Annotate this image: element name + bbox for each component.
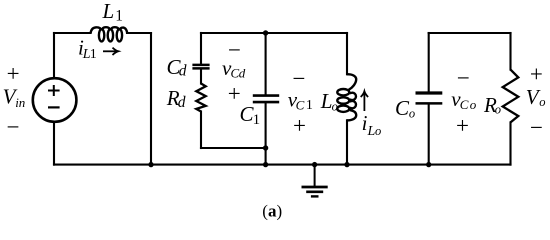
svg-text:C: C: [296, 97, 305, 112]
arrow right for iL1 current: [103, 48, 118, 55]
svg-text:C: C: [395, 96, 410, 120]
svg-text:1: 1: [253, 112, 261, 128]
wire Lo branch bottom: [346, 120, 348, 164]
svg-text:(a): (a): [262, 201, 282, 220]
svg-text:L: L: [320, 89, 333, 113]
junction node: C1 bottom on rail: [263, 162, 268, 167]
svg-text:+: +: [456, 113, 469, 138]
capacitor Cd plates: [192, 65, 209, 69]
svg-text:1: 1: [306, 98, 313, 113]
svg-text:−: −: [7, 115, 20, 140]
wire source loop left vertical bottom: [53, 122, 55, 165]
resistor Ro zigzag: [503, 70, 519, 123]
junction node: ground tap on rail: [312, 162, 317, 167]
junction node: L1 loop on bottom rail: [148, 162, 153, 167]
junction node: Lo bottom on rail: [344, 162, 349, 167]
wire output loop top rail: [429, 32, 511, 34]
arrow up for iLo current: [361, 91, 368, 111]
svg-text:+: +: [293, 113, 306, 138]
voltage source minus sign: [48, 106, 60, 108]
resistor Rd zigzag: [196, 84, 205, 112]
voltage source Vin circle: [33, 78, 77, 122]
wire Co branch top: [428, 33, 430, 92]
wire bottom ground rail: [54, 164, 511, 166]
svg-text:d: d: [178, 94, 186, 111]
svg-text:+: +: [530, 62, 543, 87]
svg-text:1: 1: [115, 7, 123, 24]
svg-text:o: o: [332, 99, 338, 113]
wire Lo branch top: [346, 33, 348, 74]
wire middle network top rail: [201, 32, 347, 34]
svg-text:1: 1: [90, 47, 97, 62]
ground symbol: [302, 165, 328, 197]
svg-text:o: o: [539, 95, 545, 109]
svg-text:o: o: [495, 103, 501, 117]
svg-text:d: d: [179, 63, 187, 80]
svg-text:L: L: [102, 0, 115, 23]
junction node: inner wire at C1 branch: [263, 145, 268, 150]
svg-text:d: d: [239, 66, 246, 81]
wire source loop left vertical top: [53, 33, 55, 78]
junction node: C1 top on middle rail: [263, 30, 268, 35]
wire C1 branch top: [265, 33, 267, 94]
wire Co branch bottom: [428, 105, 430, 165]
voltage source plus sign: [48, 85, 60, 96]
wire top rail from L1 to right corner: [127, 32, 151, 34]
wire Cd branch top: [200, 33, 202, 64]
junction node: Co bottom on rail: [426, 162, 431, 167]
inductor Lo coil: [337, 74, 356, 120]
wire C1 branch bottom: [265, 103, 267, 164]
wire top-left rail from source to L1: [54, 32, 91, 34]
svg-text:o: o: [470, 97, 477, 112]
svg-text:C: C: [460, 97, 469, 112]
svg-text:−: −: [530, 115, 543, 140]
wire below Rd: [200, 112, 202, 149]
wire inner bottom (Rd bottom to C1 branch): [201, 147, 266, 149]
svg-text:o: o: [409, 107, 415, 121]
svg-text:o: o: [375, 124, 381, 138]
svg-text:in: in: [15, 95, 25, 110]
inductor L1 coil: [91, 27, 128, 41]
svg-text:+: +: [7, 61, 20, 86]
wire Ro branch top: [509, 33, 511, 70]
capacitor Co plates: [416, 93, 443, 103]
wire Ro branch bottom: [509, 122, 511, 164]
wire between Cd and Rd: [200, 70, 202, 84]
wire source loop right vertical: [150, 33, 152, 165]
capacitor C1 plates: [253, 96, 279, 103]
